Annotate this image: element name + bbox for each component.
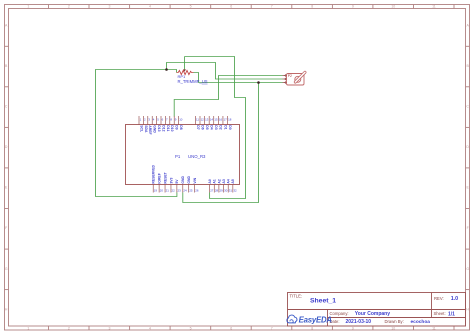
wire net junction A to U1 GND pin via left loop: [96, 70, 177, 197]
svg-text:H: H: [5, 307, 8, 311]
wire RP1 wiper vertical stub: [184, 57, 186, 71]
svg-text:7: 7: [271, 5, 273, 9]
svg-text:A4: A4: [227, 179, 231, 183]
svg-text:REV:: REV:: [434, 296, 444, 301]
svg-text:Sheet:: Sheet:: [434, 311, 446, 316]
svg-text:6: 6: [162, 118, 164, 122]
svg-text:26: 26: [195, 188, 199, 192]
svg-text:1: 1: [140, 118, 142, 122]
svg-text:19: 19: [154, 188, 158, 192]
svg-text:SDA: SDA: [144, 125, 148, 133]
wire junction B to U1 GND pin via bottom loop: [183, 83, 259, 203]
svg-text:R_TRIMMP_US: R_TRIMMP_US: [178, 79, 208, 84]
svg-text:D0: D0: [228, 125, 232, 129]
P2 pin 2: [283, 78, 287, 80]
svg-text:10: 10: [179, 118, 183, 122]
IC U1: Arduino UNO_R3 module, refdes P1: [126, 125, 240, 185]
svg-text:4: 4: [149, 5, 151, 9]
svg-text:1/1: 1/1: [448, 311, 455, 317]
svg-text:GND: GND: [181, 176, 185, 184]
svg-text:VIN: VIN: [193, 177, 197, 183]
svg-text:3: 3: [109, 327, 111, 331]
svg-text:2: 2: [144, 118, 146, 122]
svg-text:P2: P2: [288, 74, 292, 78]
svg-text:F: F: [5, 226, 7, 230]
svg-text:A5: A5: [231, 179, 235, 183]
svg-text:30: 30: [224, 188, 228, 192]
svg-text:D7: D7: [196, 125, 200, 129]
U1 bottom-left power pins: [152, 164, 199, 192]
svg-text:H: H: [466, 307, 469, 311]
svg-text:25: 25: [189, 188, 193, 192]
svg-text:27: 27: [210, 188, 214, 192]
svg-text:3V3: 3V3: [169, 177, 173, 183]
svg-text:RESERVED: RESERVED: [152, 164, 156, 183]
svg-text:D3: D3: [214, 125, 218, 129]
svg-text:D1: D1: [223, 125, 227, 129]
svg-text:13: 13: [205, 118, 209, 122]
svg-text:4: 4: [149, 327, 151, 331]
svg-text:9: 9: [352, 5, 354, 9]
svg-text:D4: D4: [210, 125, 214, 129]
svg-text:E: E: [5, 186, 8, 190]
svg-text:5V: 5V: [175, 179, 179, 184]
svg-text:23: 23: [177, 188, 181, 192]
svg-text:RESET: RESET: [163, 171, 167, 183]
svg-text:UNO_R3: UNO_R3: [188, 154, 206, 159]
svg-text:C: C: [466, 105, 469, 109]
svg-text:Your Company: Your Company: [355, 311, 390, 317]
svg-text:P1: P1: [175, 154, 181, 159]
svg-text:5: 5: [190, 327, 192, 331]
U1 top-right pins D7..D0: [195, 116, 231, 130]
svg-text:A0: A0: [208, 179, 212, 183]
svg-text:1.0: 1.0: [451, 296, 459, 302]
svg-text:29: 29: [220, 188, 224, 192]
P2 pin 3: [283, 82, 287, 84]
svg-text:D13: D13: [157, 125, 161, 131]
svg-text:28: 28: [215, 188, 219, 192]
svg-text:SCL: SCL: [139, 125, 143, 132]
svg-text:G: G: [5, 267, 8, 271]
svg-text:GND: GND: [187, 176, 191, 184]
wire RP1 right terminal to connector P2 pin 3: [194, 73, 283, 83]
svg-text:9: 9: [352, 327, 354, 331]
svg-text:G: G: [466, 267, 469, 271]
svg-text:A3: A3: [222, 179, 226, 183]
svg-text:D12: D12: [161, 125, 165, 131]
P2 pin 1: [283, 75, 287, 77]
svg-text:10: 10: [391, 5, 395, 9]
potentiometer P2: [283, 71, 307, 85]
svg-text:8: 8: [170, 118, 172, 122]
svg-text:2: 2: [68, 327, 70, 331]
svg-text:AREF: AREF: [148, 125, 152, 134]
svg-text:B: B: [5, 64, 8, 68]
svg-text:D: D: [5, 145, 8, 149]
svg-text:2: 2: [68, 5, 70, 9]
svg-text:D6: D6: [200, 125, 204, 129]
U1 bottom-right pins A0..A5: [208, 179, 237, 192]
wire junction A to resistor RP1 left terminal: [167, 70, 177, 73]
svg-text:9: 9: [175, 118, 177, 122]
svg-text:3: 3: [109, 5, 111, 9]
svg-text:GND: GND: [153, 125, 157, 133]
svg-text:D8: D8: [179, 125, 183, 129]
svg-text:6: 6: [230, 5, 232, 9]
svg-text:31: 31: [229, 188, 233, 192]
svg-text:5: 5: [157, 118, 159, 122]
svg-text:A: A: [5, 24, 8, 28]
svg-text:D11: D11: [166, 125, 170, 131]
svg-text:10: 10: [391, 327, 395, 331]
junction node A: [165, 68, 168, 71]
svg-text:D9: D9: [175, 125, 179, 129]
svg-text:11: 11: [432, 327, 436, 331]
svg-text:14: 14: [210, 118, 214, 122]
svg-text:D10: D10: [170, 125, 174, 131]
svg-text:15: 15: [214, 118, 218, 122]
junction node B: [257, 81, 260, 84]
svg-text:11: 11: [196, 118, 199, 122]
svg-text:21: 21: [166, 188, 170, 192]
resistor RP1 (trimmer R_TRIMMP_US): [177, 69, 208, 83]
P2 adjuster slot: [294, 71, 306, 83]
svg-text:8: 8: [311, 5, 313, 9]
svg-text:4: 4: [153, 118, 155, 122]
svg-text:A1: A1: [213, 179, 217, 183]
svg-text:12: 12: [201, 118, 205, 122]
svg-text:18: 18: [228, 118, 232, 122]
svg-text:A2: A2: [217, 179, 221, 183]
svg-text:EasyEDA: EasyEDA: [299, 315, 333, 324]
svg-text:Sheet_1: Sheet_1: [310, 297, 336, 304]
svg-text:Company:: Company:: [330, 311, 349, 316]
svg-text:22: 22: [172, 188, 176, 192]
svg-text:32: 32: [233, 188, 237, 192]
svg-text:TITLE:: TITLE:: [290, 294, 303, 299]
svg-text:17: 17: [224, 118, 228, 122]
svg-text:24: 24: [183, 188, 187, 192]
svg-text:ecochoa: ecochoa: [411, 319, 431, 325]
svg-text:7: 7: [166, 118, 168, 122]
svg-text:F: F: [467, 226, 469, 230]
svg-text:7: 7: [271, 327, 273, 331]
wire U1 pin D9 to connector P2 pin 1: [174, 76, 282, 117]
svg-text:5: 5: [190, 5, 192, 9]
svg-text:1: 1: [27, 327, 29, 331]
P2 knob circle: [295, 76, 301, 82]
svg-text:11: 11: [432, 5, 436, 9]
svg-text:3: 3: [148, 118, 150, 122]
svg-text:Drawn By:: Drawn By:: [385, 319, 404, 324]
U1 top-left pins SCL..D8: [139, 116, 183, 135]
svg-text:D2: D2: [219, 125, 223, 129]
wire junction A to connector P2 pin 2: [167, 63, 283, 80]
svg-text:1: 1: [27, 5, 29, 9]
wire RP1 wiper to U1 pin A0 via right loop: [185, 57, 246, 199]
svg-text:8: 8: [311, 327, 313, 331]
svg-text:2021-03-10: 2021-03-10: [346, 319, 372, 325]
svg-text:IOREF: IOREF: [157, 173, 161, 183]
svg-text:16: 16: [219, 118, 223, 122]
svg-text:D: D: [466, 145, 469, 149]
svg-text:6: 6: [230, 327, 232, 331]
svg-text:C: C: [5, 105, 8, 109]
svg-text:20: 20: [160, 188, 164, 192]
svg-text:D5: D5: [205, 125, 209, 129]
